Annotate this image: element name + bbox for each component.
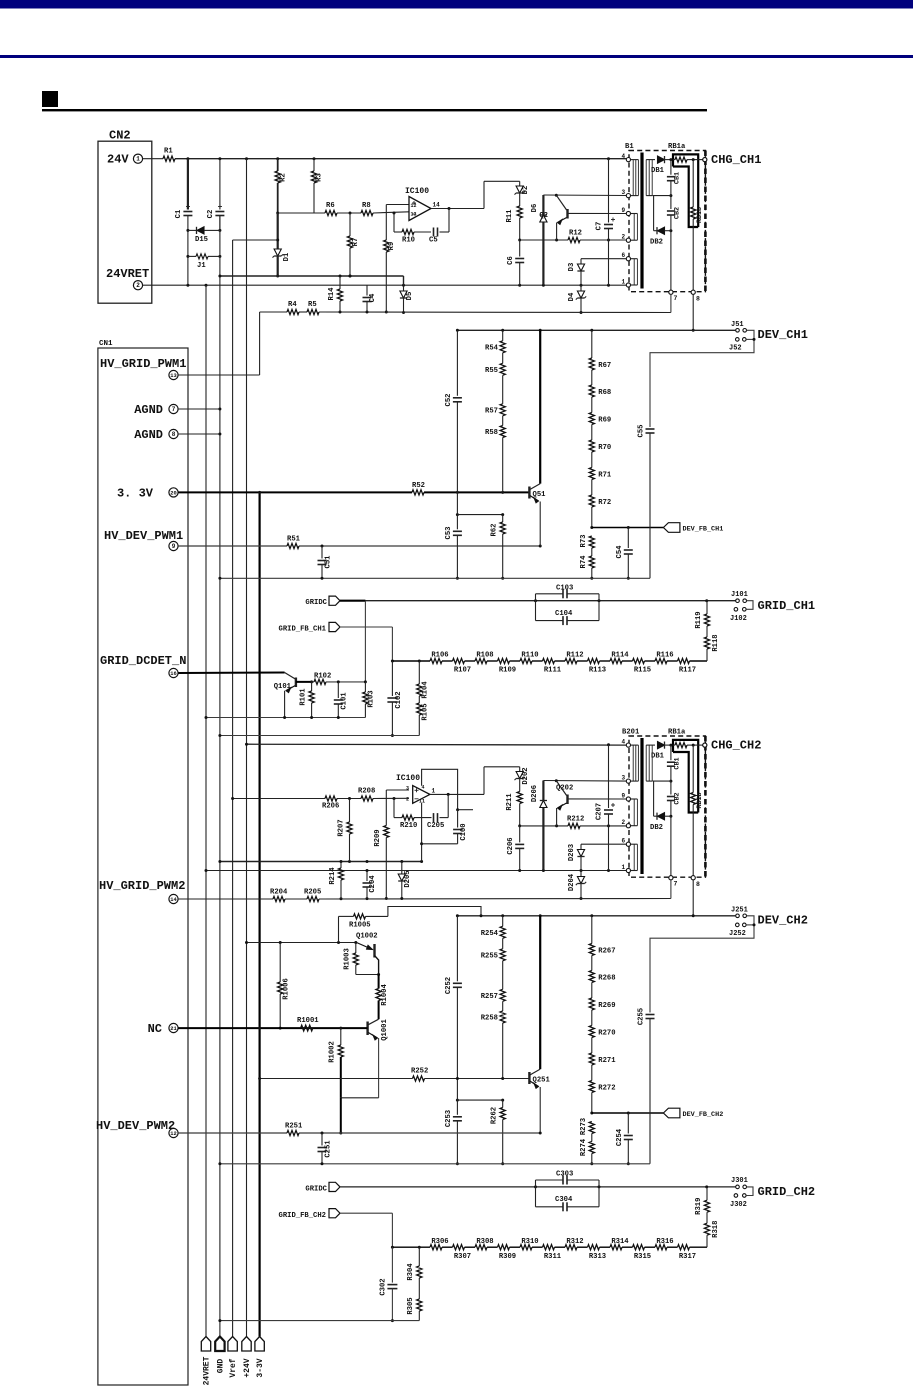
svg-text:9: 9 [622,207,626,214]
resistor R204 [273,896,285,901]
svg-text:R207: R207 [337,819,345,836]
pin flag 24VRET [201,1337,210,1352]
svg-text:3-3V: 3-3V [256,1358,265,1377]
transformer pin 8 [691,290,695,294]
svg-text:R55: R55 [485,367,498,375]
wire op-amp + input [386,204,409,206]
wire CH2 24V rail [247,743,627,746]
wire pin8 to DEV rail [692,294,694,330]
svg-text:D204: D204 [568,873,576,891]
wire op-amp output [431,208,484,210]
output node CHG_CH2 [703,743,707,747]
svg-text:CB1: CB1 [674,757,682,769]
resistor R272 [589,1081,594,1093]
svg-text:R252: R252 [411,1067,428,1075]
wire HV_GRID_PWM2 line [178,898,273,900]
svg-text:R71: R71 [598,472,612,480]
resistor R107 [453,658,465,663]
svg-text:C1: C1 [175,209,183,218]
resistor R254 [500,926,505,938]
svg-text:C2: C2 [207,210,215,219]
capacitor C104 [536,620,564,622]
resistor R273 [589,1122,594,1134]
resistor R312 [565,1245,577,1250]
resistor R113 [588,658,600,663]
svg-text:R209: R209 [374,829,382,846]
svg-text:J101: J101 [731,591,748,599]
svg-text:CB2: CB2 [674,207,682,219]
svg-text:J51: J51 [731,321,744,329]
resistor R111 [543,658,555,663]
capacitor C51 [321,546,323,559]
svg-text:R14: R14 [328,287,336,301]
svg-text:R211: R211 [506,793,514,811]
resistor R109 [498,658,510,663]
svg-text:D205: D205 [404,870,412,887]
resistor R310 [520,1245,532,1250]
capacitor C252 [456,916,458,982]
resistor R268 [589,971,594,983]
svg-text:GND: GND [217,1359,226,1374]
wire DEV block ground line [220,577,650,579]
svg-text:2: 2 [136,282,140,289]
resistor R2 [277,159,279,171]
svg-text:R109: R109 [499,667,516,675]
capacitor CB2 [670,196,672,209]
capacitor C6 [519,240,521,257]
svg-text:D1: D1 [283,252,291,261]
svg-text:J301: J301 [731,1177,748,1185]
resistor RB1b [692,160,694,207]
resistor R267 [589,944,594,956]
svg-text:C6: C6 [507,256,515,265]
svg-text:R111: R111 [544,667,562,675]
resistor R68 [589,385,594,397]
connector J101 [736,599,740,603]
svg-text:DEV_CH2: DEV_CH2 [758,913,808,927]
svg-text:R51: R51 [287,536,301,544]
wire CB2 to pin7 [670,231,672,290]
svg-text:DEV_FB_CH2: DEV_FB_CH2 [683,1111,724,1119]
svg-text:J1: J1 [197,262,206,270]
diode D5 [403,285,405,291]
svg-text:R315: R315 [634,1253,651,1261]
transformer B201 secondary winding [645,745,647,781]
svg-text:D4: D4 [568,292,576,301]
transformer B201 windings [632,745,634,781]
svg-text:R212: R212 [567,815,584,823]
svg-text:2: 2 [622,819,626,826]
transistor Q2 [556,195,566,210]
resistor R315 [633,1245,645,1250]
svg-text:12: 12 [411,203,417,209]
svg-text:R271: R271 [598,1057,616,1065]
capacitor C2 [219,159,221,210]
svg-text:C206: C206 [507,837,515,854]
svg-text:8: 8 [696,296,700,303]
section title underline [42,109,707,111]
svg-text:1: 1 [622,279,626,286]
svg-text:R214: R214 [329,867,337,885]
svg-text:C101: C101 [341,692,349,710]
resistor R51 [287,543,299,548]
connector J301 [736,1185,740,1189]
jumper J1 [188,255,196,257]
svg-text:R309: R309 [499,1253,516,1261]
resistor R3 [313,159,315,171]
svg-text:CHG_CH2: CHG_CH2 [711,739,761,753]
wire secondary tap [653,780,671,782]
svg-text:21: 21 [170,1026,176,1032]
resistor R4 [287,309,299,314]
svg-text:R105: R105 [422,703,430,720]
svg-text:3: 3 [622,189,626,196]
transistor Q1002 [357,943,373,950]
capacitor C4 [366,285,368,295]
resistor R70 [589,440,594,452]
wire B201 pin7 tail [670,880,672,899]
svg-text:Q251: Q251 [533,1077,551,1085]
wire HV_DEV_PWM2 line [178,1132,287,1134]
pin flag +24V [242,1337,251,1352]
resistor R205 [307,896,319,901]
capacitor C251 [321,1133,323,1146]
svg-text:HV_GRID_PWM2: HV_GRID_PWM2 [99,879,185,893]
capacitor C53 [456,513,459,516]
capacitor CB1 [670,745,672,760]
svg-text:R67: R67 [598,362,611,370]
svg-text:R73: R73 [580,535,588,548]
svg-text:9: 9 [622,793,626,800]
svg-text:R10: R10 [402,237,415,245]
svg-text:R110: R110 [521,652,538,660]
svg-text:C304: C304 [555,1196,573,1204]
diode D1 [276,212,279,215]
resistor R317 [678,1245,690,1250]
svg-text:DEV_CH1: DEV_CH1 [758,328,808,342]
section marker square [42,91,58,107]
wire J252 loop [650,916,754,1013]
connector J51 [736,329,740,333]
diode DB1 [658,742,665,749]
svg-text:2: 2 [622,234,626,241]
resistor R258 [500,1011,505,1023]
transistor Q101 [178,672,284,675]
svg-text:3: 3 [406,786,409,792]
svg-text:HV_DEV_PWM1: HV_DEV_PWM1 [104,529,183,543]
svg-text:C303: C303 [556,1171,573,1179]
resistor R214 [340,862,342,869]
svg-text:R314: R314 [611,1238,629,1246]
wire pin3 line [543,194,626,197]
node 24V rail junctions [186,157,189,160]
svg-text:C7: C7 [596,222,604,231]
svg-text:R208: R208 [358,788,375,796]
svg-text:9: 9 [172,543,176,550]
connector J102 [734,608,738,612]
capacitor C5 [433,228,435,237]
wire 24V rail [143,158,163,160]
capacitor C55 [646,428,655,430]
svg-text:R274: R274 [580,1138,588,1156]
svg-text:1: 1 [432,788,436,795]
resistor R101 [311,682,313,691]
resistor R115 [633,658,645,663]
wire CB2 to pin7 [670,816,672,875]
resistor R102 [312,681,314,683]
resistor R106 [430,658,442,663]
resistor R73 [589,536,594,548]
svg-text:J102: J102 [730,615,747,623]
svg-text:R102: R102 [314,672,331,680]
connector J302 [734,1194,738,1198]
connector J251 [736,914,740,918]
svg-text:D2: D2 [522,186,530,195]
diode DB2 [653,781,655,816]
svg-text:R3: R3 [316,173,324,182]
svg-text:R257: R257 [481,993,498,1001]
wire Vref tap line y942.5 [247,942,357,944]
svg-text:R5: R5 [308,301,317,309]
resistor R112 [565,658,577,663]
capacitor C206 [519,826,521,843]
svg-text:R272: R272 [598,1085,615,1093]
svg-text:4: 4 [622,739,626,746]
svg-text:2: 2 [406,797,409,803]
svg-text:R210: R210 [400,822,417,830]
svg-text:R205: R205 [304,889,321,897]
svg-text:R12: R12 [569,230,582,238]
svg-text:R62: R62 [490,524,498,537]
svg-text:13: 13 [411,212,417,218]
svg-text:C104: C104 [555,610,573,618]
wire secondary tap [653,195,671,197]
resistor R69 [589,413,594,425]
resistor R54 chain [502,330,504,341]
svg-text:AGND: AGND [134,403,163,417]
resistor R5 [307,309,319,314]
svg-text:C102: C102 [395,691,403,708]
svg-text:24VRET: 24VRET [203,1356,212,1385]
resistor R211 [517,792,522,804]
wire R212 line [520,825,568,827]
resistor R57 chain [591,330,593,358]
wire GRID_FB_CH2 lower riser [391,1247,393,1282]
connector J252 [736,923,740,927]
capacitor CB2 [670,781,672,794]
svg-text:Q101: Q101 [274,683,292,691]
resistor R316 [655,1245,667,1250]
resistor R1005 [338,916,340,942]
svg-text:C100: C100 [460,823,468,840]
resistor R257 [500,989,505,1001]
transformer pin 7 [669,876,673,880]
svg-text:D3: D3 [568,263,576,272]
svg-text:8: 8 [172,431,176,438]
svg-text:R262: R262 [490,1107,498,1124]
svg-text:R11: R11 [506,209,514,223]
resistor R252 [413,1076,425,1081]
wire CH2 pin3 line [543,780,626,783]
svg-text:RB1b: RB1b [696,792,704,808]
resistor R1004 [378,975,380,989]
svg-text:7: 7 [674,881,678,888]
transformer pin 8 [691,876,695,880]
svg-text:R1001: R1001 [297,1017,319,1025]
transistor Q251 [539,916,541,1069]
thick shield outline [673,154,698,227]
wire GRID ch1 ground line [206,717,365,719]
svg-text:R307: R307 [454,1253,471,1261]
svg-text:8: 8 [696,881,700,888]
capacitor C54 [627,528,629,549]
svg-text:R273: R273 [580,1118,588,1135]
svg-text:J252: J252 [729,930,746,938]
svg-text:C302: C302 [380,1278,388,1295]
svg-text:R318: R318 [712,1221,720,1238]
svg-text:C255: C255 [638,1008,646,1025]
transformer pin 7 [669,290,673,294]
zener diode D202 [519,767,521,772]
svg-text:R108: R108 [476,652,493,660]
svg-text:7: 7 [674,295,678,302]
svg-text:4: 4 [622,153,626,160]
wire op-amp B output [430,793,484,795]
svg-text:C251: C251 [325,1140,333,1158]
resistor R1002 [340,1028,342,1045]
svg-text:B201: B201 [622,729,640,737]
resistor R206 [325,796,337,801]
svg-text:R313: R313 [589,1253,606,1261]
resistor RB1b [692,745,694,792]
wire GRID_FB_CH2 riser [340,1212,392,1214]
capacitor C253 [456,1099,459,1102]
svg-text:14: 14 [433,202,441,209]
resistor R103 [364,682,366,692]
resistor R271 [589,1053,594,1065]
resistor R110 [520,658,532,663]
svg-text:R1005: R1005 [349,922,371,930]
svg-text:R106: R106 [431,652,448,660]
resistor R1003 [355,943,357,954]
svg-text:C207: C207 [596,803,604,820]
wire HV_GRID_PWM1 riser [259,312,261,375]
svg-text:Q1001: Q1001 [381,1019,389,1041]
svg-text:6: 6 [622,838,626,845]
resistor R57 [500,404,505,416]
svg-text:R103: R103 [368,690,376,707]
diode D205 [401,862,403,875]
wire output riser [483,181,485,208]
svg-text:R268: R268 [598,975,615,983]
capacitor C103 [535,594,537,621]
svg-text:D5: D5 [406,292,414,301]
svg-text:Q202: Q202 [556,785,573,793]
svg-text:R204: R204 [270,889,288,897]
svg-text:C52: C52 [445,394,453,407]
wire R4 R5 line y312 [260,311,287,313]
wire GND tap line y735 [220,735,419,737]
thick shield outline [673,740,698,813]
resistor R212 [568,823,580,828]
svg-text:CB2: CB2 [674,792,682,804]
svg-text:C253: C253 [445,1110,453,1127]
capacitor C1 [187,159,189,210]
wire op-amp B input line [233,798,325,800]
svg-text:R319: R319 [695,1198,703,1215]
svg-text:D6: D6 [531,204,539,213]
svg-text:AGND: AGND [134,428,163,442]
diode D204 [580,871,582,877]
wire op-amp input line [278,212,325,214]
resistor R210 [402,815,414,820]
wire J102 loop [746,601,753,610]
svg-text:C252: C252 [445,977,453,994]
resistor R104 [418,660,421,663]
capacitor C304 [536,1206,564,1208]
svg-text:R254: R254 [481,930,499,938]
svg-text:GRID_CH2: GRID_CH2 [758,1185,816,1199]
wire GRIDC line [340,600,736,602]
wire emitter join [341,1097,379,1099]
resistor RB1a [673,159,675,161]
diode D4 [580,285,582,291]
resistor R72 [589,495,594,507]
resistor R252 [502,1100,504,1107]
svg-text:1: 1 [136,156,140,163]
output tag DEV_FB_CH2 [663,1108,680,1118]
wire op-amp B pin11 ground [421,803,423,862]
resistor R55 [500,363,505,375]
wire resistor ladder line [392,1246,430,1248]
svg-text:R206: R206 [322,803,339,811]
wire B201 pin8 to DEV rail [692,880,694,916]
resistor R306 [430,1245,442,1250]
svg-text:Q2: Q2 [539,212,548,220]
pin flag GND [215,1337,224,1352]
wire HV_DEV_PWM1 line [178,545,287,547]
svg-text:J302: J302 [730,1201,747,1209]
svg-text:HV_DEV_PWM2: HV_DEV_PWM2 [96,1119,175,1133]
svg-text:R8: R8 [362,202,371,210]
svg-text:R52: R52 [412,482,425,490]
resistor R208 [361,796,373,801]
wire R252 line [260,1078,413,1080]
transistor Q1001 [368,1019,378,1024]
wire GND line y1320 [220,1320,419,1322]
wire R1005 to rail [388,907,481,917]
svg-text:1: 1 [622,864,626,871]
svg-text:+24V: +24V [243,1358,252,1377]
svg-text:R116: R116 [656,652,673,660]
wire 3.3V bus [259,492,261,1336]
zener diode D2 [519,181,521,186]
svg-text:R270: R270 [598,1030,615,1038]
transformer B1 secondary winding [645,160,647,196]
wire AGND line y276 [220,275,404,277]
svg-text:HV_GRID_PWM1: HV_GRID_PWM1 [100,357,186,371]
svg-text:R68: R68 [598,389,611,397]
wire resistor ladder line [392,660,430,662]
diode D3 [581,258,626,260]
capacitor C303 [535,1180,537,1207]
resistor R314 [610,1245,622,1250]
svg-text:R2: R2 [280,173,288,182]
svg-text:C5: C5 [429,237,438,245]
wire Vref tap [233,239,278,241]
svg-text:J52: J52 [729,345,742,353]
bracket wire C253 [457,1099,502,1101]
